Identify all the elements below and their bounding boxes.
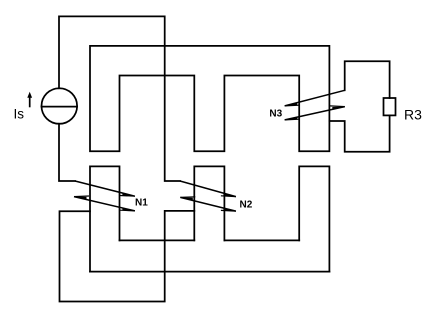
wire h17 (90, 271, 329, 273)
svg-text:Is: Is (14, 107, 25, 122)
wire R3 loop left and top (345, 61, 390, 98)
arrow N3 lower (double head) (285, 107, 345, 120)
wire h19 (224, 239, 299, 241)
current source Is circle (42, 88, 78, 124)
svg-text:R3: R3 (404, 107, 422, 123)
wire bottom-left loop (60, 211, 195, 302)
svg-text:N3: N3 (269, 108, 282, 119)
arrow N1 upper (75, 181, 135, 196)
wire R3 loop bottom and step (329, 115, 389, 151)
svg-text:N1: N1 (135, 197, 148, 208)
wire top of source loop (59, 16, 180, 181)
wire N2 rect (194, 166, 224, 240)
resistor R3 box (384, 98, 396, 115)
current direction arrow (27, 92, 32, 108)
arrow N1 lower (double head) (74, 197, 135, 211)
arrow N3 upper (285, 90, 345, 106)
wire N3 rect (299, 166, 329, 271)
svg-text:N2: N2 (240, 199, 253, 210)
arrow N2 lower (double head) (180, 197, 236, 211)
wire N1 rect (90, 166, 120, 271)
wire h2 long horizontal (90, 46, 329, 151)
wire h18 (120, 239, 195, 241)
wire source bottom to N1 stub (59, 124, 75, 181)
current source chord (42, 106, 78, 108)
arrow N2 upper (180, 181, 236, 197)
